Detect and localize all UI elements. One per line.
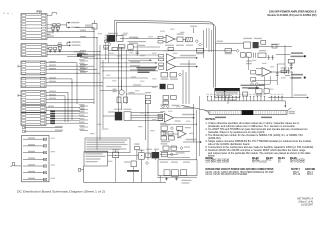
boxes mid 88-100 1 [256, 89, 262, 94]
wire run B3 to bus [52, 51, 100, 53]
connector P11 row 6 wire [23, 172, 46, 174]
label below output 1 [182, 180, 192, 181]
svg-text:DC Distribution Board Schemati: DC Distribution Board Schematic Diagram … [17, 190, 105, 194]
relay K2 aux box [124, 112, 131, 121]
wire y134 [168, 133, 178, 135]
svg-text:PIN 16: PIN 16 [293, 174, 301, 176]
wire P10-A pin6 out [47, 30, 51, 32]
vertical x121.7 long [121, 47, 123, 90]
connector P10-A pin 8 left box [22, 37, 26, 39]
pin label 1 line a [291, 52, 303, 54]
capacitor C36 box [180, 170, 186, 176]
value label v35 [189, 133, 194, 134]
value label v16 [135, 90, 140, 91]
top bus vertical 1 [206, 28, 208, 48]
svg-text:PIN 8: PIN 8 [307, 174, 313, 176]
connector P10-G pin 4 wire [26, 123, 40, 125]
top bus vertical 2 [208, 28, 210, 52]
connector P10-E pin 4 left box [22, 102, 26, 104]
diode D7 [170, 153, 173, 156]
relay K3 [152, 152, 160, 158]
multiplexer note body [215, 91, 240, 97]
wire junction 11 [67, 99, 68, 100]
connector P11 row 1 wire [23, 138, 46, 140]
connector P10-A pin 1 left box [22, 14, 26, 16]
wire P10-A pin5 out [47, 27, 52, 29]
component stack S1 box2 [146, 100, 151, 103]
component on y50 box2 [225, 49, 232, 53]
connector P10-D pin 3 right box [40, 85, 45, 87]
connector P10-D pin 3 left box [22, 85, 26, 87]
vertical x183 [182, 70, 184, 104]
wire out of module y43 [215, 42, 243, 44]
wire junction 15 [196, 124, 197, 125]
value label v42 [150, 130, 155, 131]
wire to pin terminal 1 [276, 53, 291, 55]
wire c30 down [140, 159, 142, 182]
diode D2 [108, 43, 111, 46]
wire run C3 [60, 69, 97, 71]
ground below C2 [57, 29, 59, 30]
connector P11 row 5 wire [23, 165, 46, 167]
connector P11 row 4 label [28, 158, 35, 159]
box right of U5 [168, 85, 174, 89]
connector P10-E pin 2 wire [26, 95, 40, 97]
wire P10-B pin3 [47, 51, 52, 53]
connector P10-G pin 4 left box [22, 123, 26, 125]
vertical left border of output section [83, 166, 85, 182]
connector P11 row 7 wire [23, 178, 46, 180]
connector P10-B pin 1 wire [26, 44, 41, 46]
U3 out wire [272, 71, 292, 73]
connector P10-G pin 2 right box [40, 117, 45, 119]
note N1 text line 1 [137, 67, 157, 68]
capacitor C2 [56, 27, 59, 29]
pin terminal 2 square [304, 77, 306, 79]
value label v41 [138, 126, 143, 127]
connector P10-A pin 2 right box [41, 17, 46, 19]
labels y105 [172, 105, 180, 106]
components under U2 box2 [170, 72, 177, 77]
wire junction 7 [76, 73, 77, 74]
connector P10-E pin 1 wire [26, 91, 40, 93]
cluster box2 hatched [186, 38, 193, 42]
diode D15 [180, 147, 183, 150]
wire external B terminal [15, 165, 22, 167]
resistor R5 [104, 45, 109, 48]
capacitor C30 [139, 153, 145, 160]
wire y68 stub [256, 68, 262, 70]
diode D8 [162, 105, 165, 108]
connector P11 row 4 pin box [43, 158, 47, 160]
vertical x292 to y97 [291, 72, 293, 98]
labels near Q1 [113, 89, 117, 90]
wire junction 1 [93, 31, 94, 32]
vertical bus line 3 [99, 45, 101, 140]
wire +B arrow 4 [69, 44, 71, 46]
resistor R2 [57, 24, 60, 26]
net label stub M2 [80, 109, 88, 111]
wire k3 up [154, 150, 156, 152]
connector P10-A pin 1 right box [41, 14, 46, 16]
module boundary double wire inner [117, 22, 216, 87]
capacitor pair right 1 [284, 67, 286, 74]
connector P10-F pin 1 wire [26, 106, 40, 108]
capacitor C5 [92, 24, 97, 30]
multiplexer note text 2 [216, 95, 232, 96]
test point TP15 [256, 96, 258, 101]
test point TP4 [217, 96, 219, 101]
labels above K1 row [105, 35, 110, 36]
wire K1 out 2 [127, 41, 146, 43]
connector P10-B pin 3 left box [22, 51, 26, 53]
relay K2 fan wire 4 [131, 119, 163, 121]
power note text 3 [86, 158, 101, 159]
resistor R3 [58, 44, 61, 46]
connector P10-D pin 2 right box [40, 81, 45, 83]
connector P10-E pin 1 right box [40, 91, 45, 93]
pin label 1 line b [291, 56, 304, 58]
bottom bus wire [84, 181, 167, 183]
ribbon right label [289, 111, 295, 112]
wire junction 17 [96, 58, 97, 59]
capacitor C9 vertical [136, 44, 138, 56]
value label v25 [262, 63, 267, 64]
value label v21 [163, 50, 168, 51]
wire y56.6 run with component [67, 56, 95, 58]
vertical x148 down [147, 104, 149, 160]
wire VR1 down [115, 158, 117, 183]
wire y50 right section [160, 50, 236, 52]
connector P11 row 5 right label [51, 164, 56, 165]
connector P10-E pin 2 left box [22, 95, 26, 97]
connector P10-E body [21, 91, 46, 105]
test point TP18 [271, 96, 273, 101]
value label v4 [134, 38, 140, 39]
net label stub M8 [80, 130, 88, 132]
label K1 [108, 33, 118, 34]
output section enclosure [158, 160, 197, 176]
svg-text:and output power of the partic: and output power of the particular PA mo… [208, 152, 311, 155]
connector P10-B pin 3 right box [41, 51, 46, 53]
value label v19 [170, 29, 175, 30]
connector P10-G pin 3 wire [26, 120, 40, 122]
wire junction 16 [93, 54, 94, 55]
ribbon cable J3 body [209, 111, 287, 115]
labels mid-right col [160, 111, 165, 112]
diode D9 [166, 105, 169, 108]
wire c31 down [133, 167, 135, 183]
connector P10-A pin 3 left box [22, 21, 26, 23]
ground G2 [176, 177, 178, 178]
output section label 2 [171, 162, 178, 163]
wire P10-G rows to terminal block [46, 114, 50, 116]
labels above K2 [114, 109, 122, 110]
wire c30 up [140, 150, 142, 153]
diode D14 [163, 132, 166, 135]
connector P10-G pin 2 wire [26, 117, 40, 119]
diode D1 [105, 39, 108, 42]
value label v11 [106, 75, 111, 76]
connector P10-F pin 2 left box [22, 110, 26, 112]
module boundary double wire outer [115, 20, 214, 87]
connector P10-F pin 2 right box [40, 110, 45, 112]
connector P10-A pin 8 wire [26, 37, 41, 39]
stub connection left of P10-C [18, 65, 21, 67]
resistor R12 [168, 48, 174, 51]
vertical x145 segment [145, 99, 147, 140]
ribbon cable dark segment [242, 110, 254, 115]
test point TP1 [207, 96, 209, 101]
wire junction 8 [71, 82, 72, 83]
scan specks top-left [3, 12, 4, 13]
value label v24 [252, 60, 256, 61]
relay K2 [115, 112, 122, 121]
connector P11 row 3 wire [23, 152, 46, 154]
wire y84 cross [259, 83, 270, 85]
relay K2 fan wire 3 [131, 117, 163, 119]
connector P10-C pin 2 right box [40, 65, 45, 67]
svg-text:P10: P10 [37, 9, 43, 13]
wire u3 minus in [256, 73, 262, 75]
value label v8 [129, 52, 134, 53]
connector P10-F body [21, 106, 46, 113]
connector P11 row 7 right label [51, 178, 56, 179]
connector P11 row 5 pin box [43, 165, 47, 167]
power note box body [84, 152, 108, 167]
wire run A4 to bus [75, 26, 94, 28]
regulator VR1 box [113, 152, 119, 158]
wire junction 13 [115, 155, 116, 156]
test point TP10 [239, 96, 241, 101]
test point TP3 [214, 96, 216, 101]
label +1.25 [192, 28, 194, 34]
diode D4 [199, 43, 202, 46]
ribbon cable right taper [287, 108, 291, 111]
top row box A [241, 53, 246, 58]
note box N2 text line 3 [86, 144, 127, 145]
value label v33 [166, 124, 171, 125]
wire P10-F pin1 [46, 106, 58, 108]
connector P10-A pin 6 right box [41, 30, 46, 32]
ground below +Vr [290, 66, 292, 67]
wire P10-A pin7 out [47, 34, 51, 36]
resistor R18 [158, 118, 163, 120]
capacitor C3 [47, 48, 49, 50]
connector P11 row 5 label [28, 164, 35, 165]
value label v39 [140, 112, 145, 113]
wire bus horizontal y27 [66, 24, 68, 26]
op-amp U3 [262, 68, 272, 77]
value label v9 [140, 55, 145, 56]
box x243 y88 [243, 92, 248, 96]
connector P10-C pin 1 wire [26, 62, 40, 64]
wire P10-D pin3 [46, 85, 62, 87]
test point TP21 [281, 96, 283, 101]
capacitor C21 [135, 147, 140, 150]
box y128 [177, 126, 183, 130]
connector P11 row 7 label [28, 178, 35, 179]
vertical x285 [284, 45, 286, 70]
resistor R1 [53, 24, 56, 26]
resistor R6 [119, 45, 125, 48]
wire y154 [160, 154, 178, 156]
relay K2 fan wire 1 [131, 112, 163, 114]
cap column x277 [276, 64, 278, 85]
capacitor C1 [52, 27, 55, 29]
ribbon cable left taper [181, 105, 209, 111]
wire y151 [160, 150, 190, 152]
connector P11 row 1 right label [51, 138, 56, 139]
value label v23 [244, 56, 249, 57]
wires into U1 [163, 36, 166, 38]
connector P11 row 1 label [28, 137, 35, 138]
wire link box to bus [159, 176, 161, 183]
long wire to pin arrow y97.5 [268, 97, 307, 99]
connector P10-A pin 5 wire [26, 27, 41, 29]
vertical x196.5 [196, 110, 198, 160]
vertical x105 seg [105, 42, 107, 60]
smudges y128-132 [185, 127, 191, 128]
wire P10-C pin4 [46, 72, 58, 74]
net label stub L5 [80, 67, 88, 69]
connector P11 row 3 right label [51, 151, 56, 152]
value label v17 [152, 87, 157, 88]
connector P10-E pin 2 right box [40, 95, 45, 97]
value label v44 [148, 153, 153, 154]
connector P11 row 3 pin box [43, 152, 47, 154]
connector P10-A pin 5 right box [41, 27, 46, 29]
wire run B4 to bus [52, 54, 100, 56]
connector P10-E pin 1 left box [22, 91, 26, 93]
wire junction 9 [147, 112, 148, 113]
net label stub M1 [80, 105, 88, 107]
connector P11 row 2 wire [23, 145, 46, 147]
cap below +Vr [290, 63, 292, 66]
input resistor column R14 [159, 58, 164, 60]
connector P10-D pin 1 wire [26, 78, 40, 80]
transistor Q8 box [171, 170, 178, 176]
connector P10-A pin 3 wire [26, 21, 41, 23]
input resistor column R16 [159, 67, 164, 69]
connector P10-G pin 3 right box [40, 120, 45, 122]
connector P10-C pin 4 right box [40, 72, 45, 74]
component cluster mid [128, 45, 133, 50]
note box N2 text line 6 [86, 151, 108, 152]
wire junction 12 [291, 71, 292, 72]
connector P10-A pin 7 right box [41, 34, 46, 36]
op-amp U7 [178, 130, 186, 138]
connector P10-G pin 1 wire [26, 114, 40, 116]
diode D10 [171, 127, 174, 130]
diode D6 [179, 73, 182, 76]
value label v38 [104, 128, 109, 129]
smudge y108 left [160, 104, 166, 105]
value label v34 [177, 137, 182, 138]
wire to pin terminal 2 [285, 75, 290, 77]
connector P10-D body [21, 77, 46, 87]
connector P10-A pin 3 right box [41, 21, 46, 23]
value label v32 [186, 121, 191, 122]
capacitor symbol pair 2 [272, 55, 274, 60]
transistor Q7 box [164, 170, 170, 176]
box y148 b [171, 146, 176, 150]
connector P10-G pin 1 right box [40, 114, 45, 116]
wire run F2 [58, 110, 80, 112]
connector P10-A pin 2 left box [22, 17, 26, 19]
wire J2 arrow run 3 [103, 70, 158, 72]
test point TP2 [210, 96, 212, 101]
terminal block fan-out wires [55, 110, 80, 112]
wire junction 10 [145, 115, 146, 116]
wire P10-C pin1 long [46, 62, 77, 64]
connector P10-F pin 2 wire [26, 110, 40, 112]
vertical bus from P10-E pin1 [67, 92, 69, 122]
resistor R20 [281, 70, 287, 73]
component on y50 box1 [196, 49, 203, 53]
net label stub L3 [80, 60, 88, 62]
connector P10-G pin 4 right box [40, 123, 45, 125]
multiplexer note header [215, 88, 240, 91]
connector P10-C pin 4 wire [26, 72, 40, 74]
wire J2 arrow run 2 [100, 66, 155, 68]
vertical x264 seg [264, 76, 266, 88]
connector P10-B pin 3 wire [26, 51, 41, 53]
box row y132 a [161, 132, 166, 136]
vertical bus from P10-D pin1 [71, 79, 73, 120]
test point TP16 [260, 96, 262, 101]
vertical x248 seg [247, 57, 249, 70]
wire P10-D pin2 [46, 81, 62, 83]
wire +B arrow 2 [67, 26, 69, 28]
connector P10-C body [21, 61, 46, 75]
connector P10-B pin 4 wire [26, 54, 41, 56]
op-amp U2B [166, 62, 175, 70]
connector P10-B pin 4 right box [41, 54, 46, 56]
wire node to vertical bus stub [60, 24, 66, 26]
cluster low boxes 2 [171, 95, 177, 99]
top row box C [258, 53, 266, 58]
wire K4 out [259, 45, 292, 47]
label MODULE [127, 170, 139, 172]
polyfuse F1 dark [77, 53, 82, 56]
wire Q1 down [121, 103, 123, 110]
svg-text:Models CLD-DMA (P1) and CLD-DM: Models CLD-DMA (P1) and CLD-DMA (P2) [267, 14, 316, 17]
transistor Q1 [119, 90, 124, 95]
connector P10-A pin 8 right box [41, 37, 46, 39]
test point TP8 [232, 96, 234, 101]
connector P10-G pin 1 left box [22, 114, 26, 116]
output section label 3 [183, 162, 190, 163]
connector P10-E pin 3 right box [40, 98, 45, 100]
connector P10-G body [21, 113, 46, 126]
op-amp U1 [166, 35, 175, 43]
connector P10-A pin 2 wire [26, 17, 41, 19]
resistor R9 [123, 97, 127, 103]
vertical x203 [202, 30, 204, 58]
connector P11 row 4 wire [23, 158, 46, 160]
wire P10-B pin4 [47, 54, 52, 56]
connector P10-B pin 1 right box [41, 44, 46, 46]
test point TP11 [242, 96, 244, 101]
wire run F1 [58, 106, 80, 108]
net label stub M3 [80, 112, 88, 114]
wire run C4 [58, 72, 100, 74]
ribbon caption 1 [215, 117, 226, 119]
value label v7 [117, 55, 122, 56]
svg-text:CLD-DMA 1100 100LW: CLD-DMA 1100 100LW [205, 161, 229, 164]
value label v1 [98, 33, 103, 34]
